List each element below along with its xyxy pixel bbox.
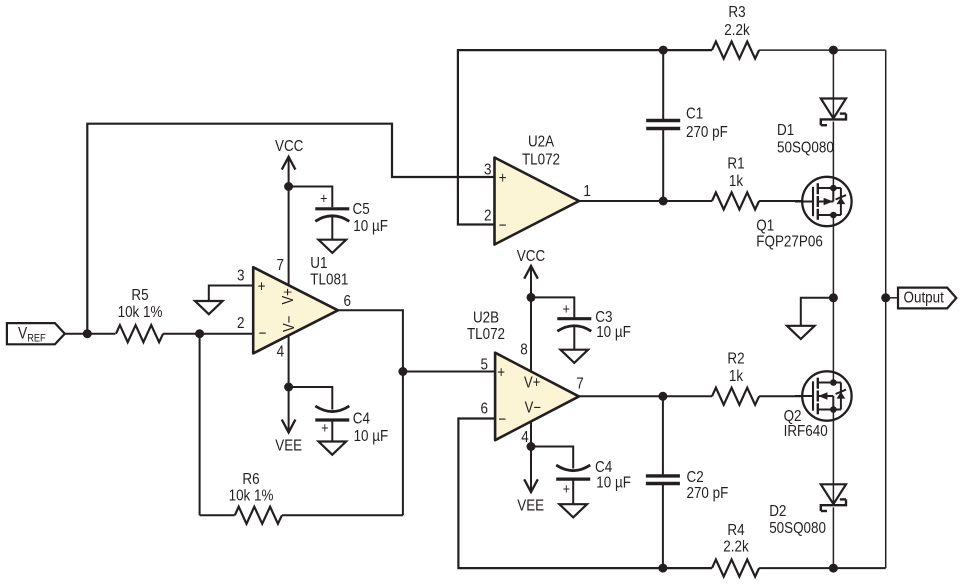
svg-text:C5: C5	[353, 201, 370, 218]
svg-text:V: V	[18, 325, 27, 343]
svg-text:V−: V−	[525, 400, 541, 417]
svg-text:FQP27P06: FQP27P06	[756, 233, 823, 250]
svg-text:R6: R6	[242, 471, 259, 488]
svg-text:2: 2	[484, 207, 492, 224]
svg-text:V+: V+	[280, 288, 297, 304]
svg-text:VEE: VEE	[517, 498, 544, 515]
svg-text:10 µF: 10 µF	[596, 324, 631, 341]
svg-text:−: −	[499, 217, 507, 234]
svg-text:+: +	[497, 364, 505, 381]
svg-text:4: 4	[521, 429, 529, 446]
svg-text:U2A: U2A	[528, 134, 554, 151]
svg-text:+: +	[563, 301, 571, 318]
svg-text:+: +	[258, 278, 266, 295]
svg-text:+: +	[499, 170, 507, 187]
svg-text:−: −	[498, 411, 506, 428]
svg-text:TL072: TL072	[467, 326, 505, 343]
svg-text:Output: Output	[904, 289, 945, 306]
svg-text:Q1: Q1	[756, 218, 774, 235]
svg-text:10 µF: 10 µF	[353, 218, 388, 235]
svg-text:V+: V+	[524, 374, 540, 391]
svg-text:C2: C2	[687, 469, 704, 486]
svg-text:R5: R5	[131, 287, 148, 304]
svg-text:VCC: VCC	[275, 138, 303, 155]
svg-text:C1: C1	[686, 106, 703, 123]
svg-text:7: 7	[576, 376, 584, 393]
svg-text:50SQ080: 50SQ080	[769, 520, 826, 537]
svg-text:U1: U1	[310, 255, 327, 272]
svg-text:2: 2	[237, 315, 245, 332]
svg-text:270 pF: 270 pF	[686, 124, 728, 141]
svg-text:2.2k: 2.2k	[723, 539, 749, 556]
svg-text:10 µF: 10 µF	[354, 428, 389, 445]
svg-text:8: 8	[520, 342, 528, 359]
svg-text:1k: 1k	[729, 173, 744, 190]
svg-text:3: 3	[237, 268, 245, 285]
svg-text:+: +	[321, 420, 329, 437]
svg-text:R2: R2	[727, 351, 744, 368]
svg-text:VCC: VCC	[517, 248, 545, 265]
svg-text:270 pF: 270 pF	[687, 485, 729, 502]
svg-text:2.2k: 2.2k	[724, 22, 750, 39]
svg-text:IRF640: IRF640	[784, 423, 828, 440]
svg-text:C4: C4	[353, 411, 370, 428]
svg-text:R4: R4	[727, 522, 744, 539]
svg-text:TL081: TL081	[310, 272, 348, 289]
svg-text:V−: V−	[281, 316, 298, 332]
svg-text:5: 5	[481, 357, 489, 374]
svg-text:6: 6	[481, 401, 489, 418]
svg-text:6: 6	[343, 293, 351, 310]
svg-text:1: 1	[583, 183, 591, 200]
svg-text:D1: D1	[777, 122, 794, 139]
svg-text:+: +	[563, 481, 571, 498]
svg-text:10 µF: 10 µF	[596, 475, 631, 492]
svg-text:U2B: U2B	[473, 310, 499, 327]
svg-text:R3: R3	[728, 4, 745, 21]
svg-text:+: +	[320, 191, 328, 208]
svg-text:D2: D2	[769, 503, 786, 520]
svg-text:REF: REF	[27, 332, 46, 344]
svg-text:10k 1%: 10k 1%	[229, 488, 274, 505]
svg-text:TL072: TL072	[522, 151, 560, 168]
svg-text:VEE: VEE	[275, 437, 302, 454]
svg-text:3: 3	[484, 161, 492, 178]
svg-text:10k 1%: 10k 1%	[118, 304, 163, 321]
svg-text:R1: R1	[727, 155, 744, 172]
svg-text:−: −	[259, 325, 267, 342]
svg-text:4: 4	[277, 343, 285, 360]
svg-text:7: 7	[276, 257, 284, 274]
svg-text:1k: 1k	[729, 368, 744, 385]
svg-text:C4: C4	[595, 459, 612, 476]
svg-text:50SQ080: 50SQ080	[777, 140, 834, 157]
